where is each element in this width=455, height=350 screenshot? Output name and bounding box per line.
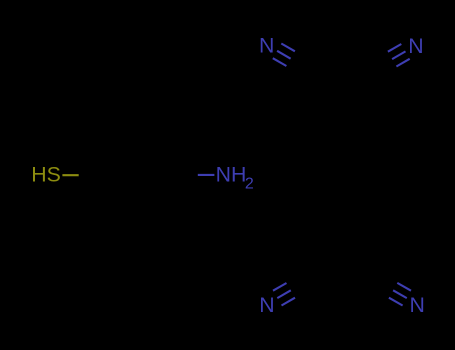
exocyclic double bond C=C bottom <box>338 218 340 261</box>
double bond C2=C3 inner line <box>122 142 155 144</box>
svg-text:N: N <box>408 34 423 58</box>
svg-text:N: N <box>259 34 274 58</box>
svg-text:2: 2 <box>245 176 254 193</box>
bond C-C to top-right nitrile carbon <box>342 67 379 88</box>
svg-text:N: N <box>410 293 425 317</box>
svg-text:NH: NH <box>216 163 247 187</box>
bond S-C1 <box>62 174 78 176</box>
triple bond C#N bottom-right <box>384 275 398 283</box>
bond C4-N amine <box>181 174 198 176</box>
svg-text:HS: HS <box>31 163 61 187</box>
double bond C4=C5 inner line <box>157 177 174 206</box>
triple bond C#N top-left <box>286 66 300 74</box>
double bond ring left side inner line <box>309 158 311 191</box>
svg-text:N: N <box>259 293 274 317</box>
benzene ring (aminothiophenol) <box>95 138 181 212</box>
triple bond C#N bottom-left <box>295 290 309 298</box>
bond C-C to top-left nitrile carbon <box>304 67 342 89</box>
bond C-C to bottom-left nitrile carbon <box>304 261 341 283</box>
double bond ring right side inner line <box>372 158 374 191</box>
bond C-C to bottom-right nitrile carbon <box>342 261 380 283</box>
triple bond C#N top-right <box>375 52 388 60</box>
quinoid ring (TCNQ) <box>304 131 379 217</box>
double bond C6=C1 inner line <box>103 177 120 206</box>
exocyclic double bond C=C top <box>338 88 340 131</box>
